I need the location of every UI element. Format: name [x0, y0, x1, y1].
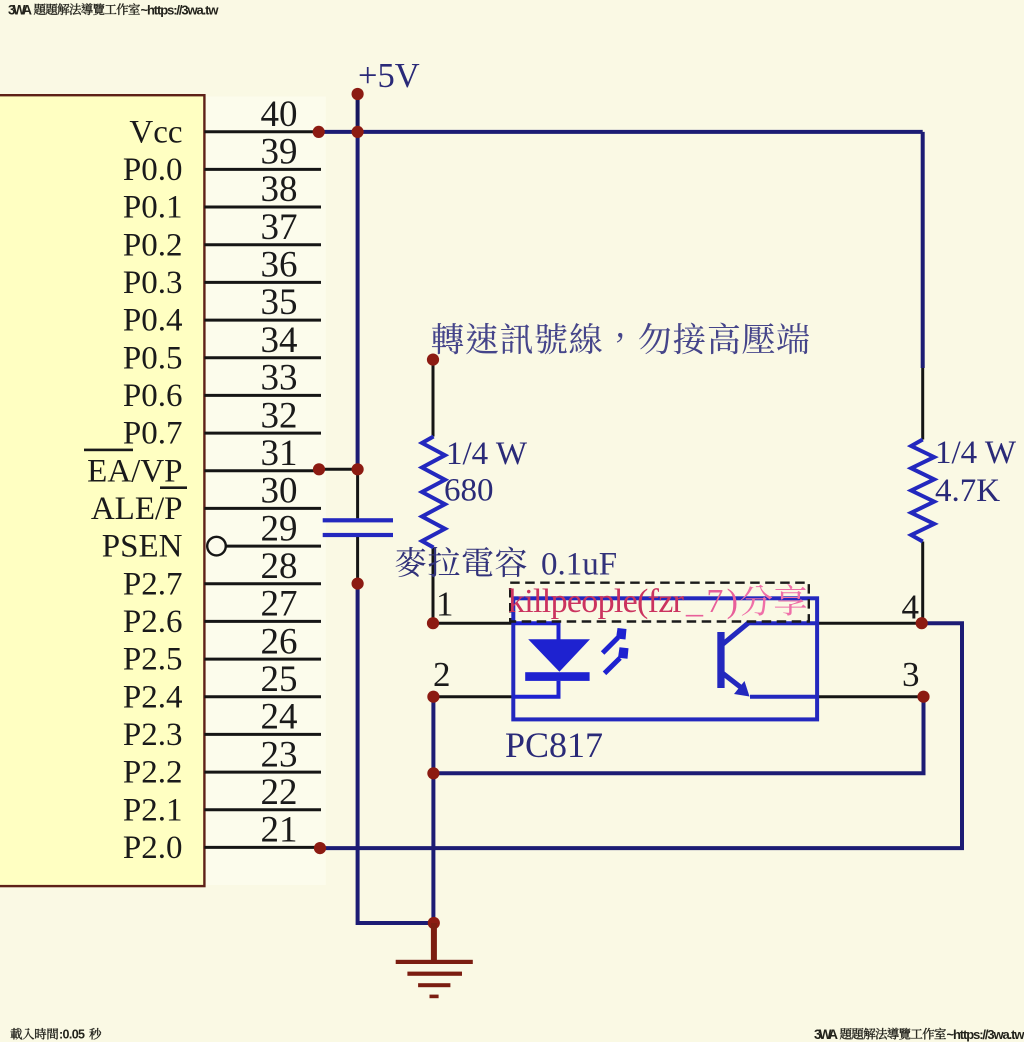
wire above capacitor [356, 469, 359, 518]
pin 39 wire [204, 168, 321, 171]
junction ground [428, 917, 440, 929]
watermark text CJK share [740, 584, 806, 616]
svg-text:3WA: 3WA [8, 3, 32, 18]
svg-text:P0.4: P0.4 [123, 303, 183, 339]
wire R2 top stem [921, 368, 924, 440]
wire to PC817 pin 1 [433, 622, 513, 625]
svg-text:1: 1 [436, 585, 454, 624]
label C1 mylar capacitor [396, 547, 527, 577]
junction P2.0 [314, 842, 326, 854]
watermark dashed box [510, 583, 809, 622]
svg-text:P0.1: P0.1 [123, 190, 183, 226]
wire PC817 pin 3 [817, 695, 923, 698]
LED light arrow 2 [605, 658, 621, 673]
pin 31 wire [204, 469, 321, 472]
capacitor C1 0.1uF plates [323, 518, 393, 522]
wire R1 bottom stem [432, 548, 435, 624]
svg-text:30: 30 [261, 471, 298, 512]
svg-text:680: 680 [444, 473, 494, 509]
net pin4 to P2.0 [320, 623, 962, 848]
svg-text:P2.2: P2.2 [123, 755, 183, 791]
svg-text:2: 2 [433, 655, 451, 694]
svg-text:~https://3wa.tw: ~https://3wa.tw [947, 1027, 1024, 1042]
svg-text:26: 26 [261, 621, 298, 662]
pin 38 wire [204, 206, 321, 209]
svg-text:25: 25 [261, 659, 298, 700]
svg-text:22: 22 [261, 772, 298, 813]
wire below capacitor [356, 537, 359, 584]
svg-text:3WA: 3WA [814, 1027, 838, 1042]
svg-text:P2.6: P2.6 [123, 604, 183, 640]
svg-text:4: 4 [902, 588, 920, 627]
pin 40 wire [204, 130, 321, 133]
svg-text:P2.4: P2.4 [123, 679, 183, 715]
pin 21 wire [204, 846, 321, 849]
pin 23 wire [204, 771, 321, 774]
svg-text:ALE/P: ALE/P [91, 491, 183, 527]
junction PC817 pin1 [427, 617, 439, 629]
svg-text:21: 21 [261, 810, 298, 851]
svg-text:24: 24 [261, 697, 298, 738]
svg-text:38: 38 [261, 169, 298, 210]
LED light arrow 1 [603, 638, 618, 653]
svg-text:37: 37 [261, 207, 298, 248]
wire R2 bottom stem [921, 542, 924, 624]
wire R1 top stem [432, 360, 435, 437]
svg-text:0.1uF: 0.1uF [541, 547, 617, 583]
svg-text:1/4 W: 1/4 W [935, 435, 1017, 471]
svg-text:P0.0: P0.0 [123, 152, 183, 188]
junction EA/VP rail [352, 463, 364, 475]
pin 37 wire [204, 243, 321, 246]
wire +5V stem [356, 94, 360, 132]
watermark site top-left [8, 3, 219, 18]
node signal input [427, 354, 439, 366]
PSEN pin inversion bubble [207, 537, 226, 556]
svg-text:P2.0: P2.0 [123, 830, 183, 866]
LED D1 anode lead [513, 623, 558, 641]
wire EA/VP link [319, 468, 358, 471]
svg-text:PC817: PC817 [505, 725, 603, 765]
svg-text:+5V: +5V [358, 57, 420, 95]
junction P2.7 rail [352, 578, 364, 590]
svg-text:P2.7: P2.7 [123, 566, 183, 602]
svg-text:Vcc: Vcc [129, 114, 182, 150]
pin 32 wire [204, 432, 321, 435]
svg-text:35: 35 [261, 282, 298, 323]
pin 34 wire [204, 356, 321, 359]
pin 22 wire [204, 808, 321, 811]
pin 28 wire [204, 582, 321, 585]
annotation tach signal line [432, 323, 809, 355]
svg-text:28: 28 [261, 546, 298, 587]
svg-text:_7): _7) [685, 583, 738, 620]
svg-text:40: 40 [261, 94, 298, 135]
svg-text:32: 32 [261, 395, 298, 436]
LED D1 cathode lead [513, 681, 558, 697]
svg-text:29: 29 [261, 508, 298, 549]
pin column pale backdrop [206, 97, 326, 886]
svg-text:~https://3wa.tw: ~https://3wa.tw [141, 3, 220, 18]
junction PC817 pin4 [916, 617, 928, 629]
svg-text:P2.1: P2.1 [123, 792, 183, 828]
svg-text::0.05: :0.05 [59, 1028, 85, 1042]
svg-text:P0.5: P0.5 [123, 340, 183, 376]
svg-text:23: 23 [261, 734, 298, 775]
wire to ground (left vertical) [358, 584, 434, 923]
+5V power rail [321, 130, 923, 134]
svg-text:P0.7: P0.7 [123, 416, 183, 452]
pin 35 wire [204, 319, 321, 322]
svg-text:31: 31 [261, 433, 298, 474]
junction pin3 return [427, 767, 439, 779]
svg-text:P0.2: P0.2 [123, 227, 183, 263]
pin 30 wire [204, 507, 321, 510]
svg-text:27: 27 [261, 584, 298, 625]
pin 33 wire [204, 394, 321, 397]
ALE/P overline (over P) [160, 486, 187, 489]
EA overline [84, 449, 133, 452]
svg-text:4.7K: 4.7K [935, 473, 1000, 509]
pin 25 wire [204, 695, 321, 698]
svg-text:killpeople(fzr: killpeople(fzr [508, 583, 685, 620]
ground [396, 923, 473, 998]
wire PC817 pin 4 [817, 622, 922, 625]
resistor R1 680 [422, 437, 445, 548]
svg-text:P2.5: P2.5 [123, 642, 183, 678]
svg-text:34: 34 [261, 320, 298, 361]
junction PC817 pin2 [427, 691, 439, 703]
pin 24 wire [204, 733, 321, 736]
watermark site bottom-right [814, 1027, 1024, 1042]
svg-text:P0.3: P0.3 [123, 265, 183, 301]
junction PC817 pin3 [917, 691, 929, 703]
wire pin2 to ground vertical [431, 697, 435, 923]
wire to PC817 pin 2 [433, 695, 513, 698]
wire left vertical to EA/VP [356, 132, 360, 469]
svg-text:39: 39 [261, 132, 298, 173]
svg-text:3: 3 [902, 655, 920, 694]
phototransistor Q1 base bar [717, 632, 724, 688]
LED D1 cathode bar [525, 672, 589, 681]
pin 26 wire [204, 658, 321, 661]
LED D1 triangle [528, 639, 590, 672]
pin 36 wire [204, 281, 321, 284]
svg-text:EA/VP: EA/VP [87, 453, 182, 489]
junction EA/VP pin [313, 463, 325, 475]
phototransistor Q1 collector [723, 623, 749, 644]
optocoupler U2 PC817 box [513, 598, 817, 719]
phototransistor Q1 emitter with arrow [723, 674, 741, 688]
microcontroller U1 (8051) body [0, 95, 204, 886]
svg-text:PSEN: PSEN [102, 529, 183, 565]
net pin3 return [433, 697, 923, 774]
junction pin40 [313, 126, 325, 138]
pin 27 wire [204, 620, 321, 623]
watermark load time bottom-left [11, 1028, 101, 1042]
wire right vertical navy [921, 132, 925, 368]
junction +5V rail [352, 126, 364, 138]
pin 29 wire [226, 545, 321, 548]
svg-text:36: 36 [261, 245, 298, 286]
svg-text:P2.3: P2.3 [123, 717, 183, 753]
node +5V [352, 88, 364, 100]
svg-text:33: 33 [261, 358, 298, 399]
resistor R2 4.7K [911, 440, 934, 542]
svg-text:P0.6: P0.6 [123, 378, 183, 414]
svg-text:1/4 W: 1/4 W [446, 436, 528, 472]
